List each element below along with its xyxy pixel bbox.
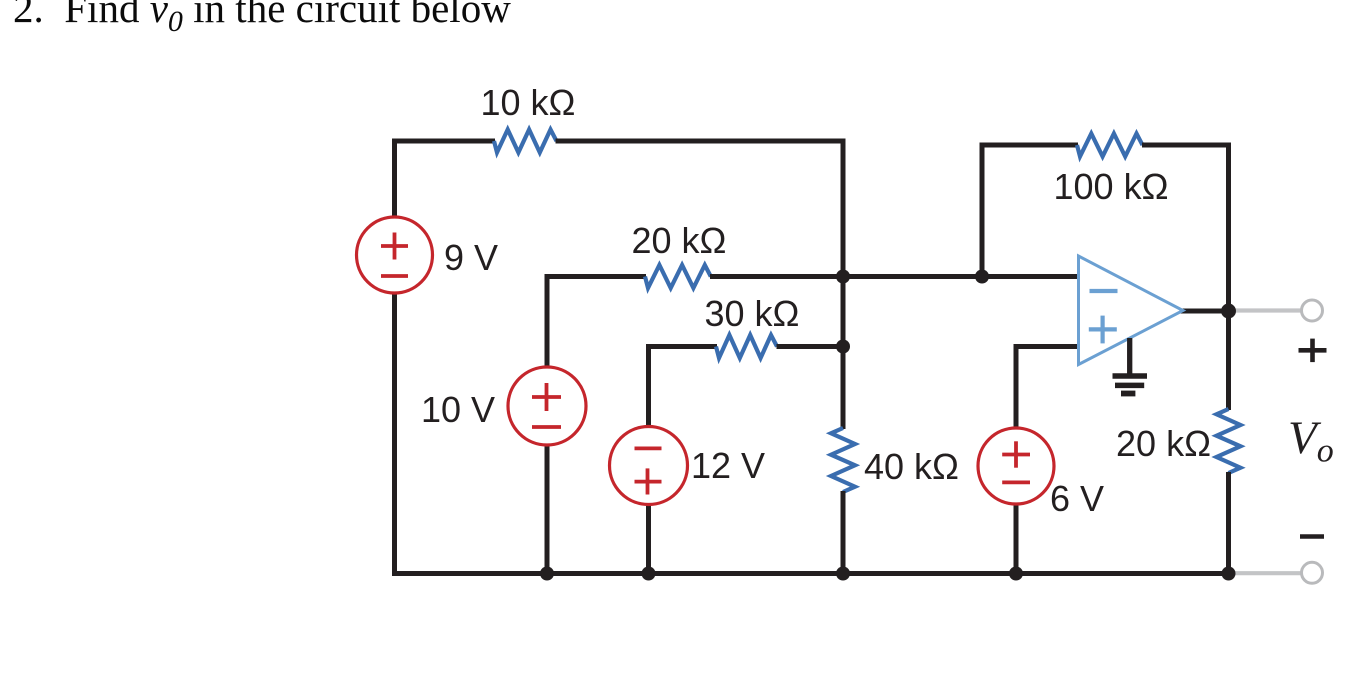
svg-text:6 V: 6 V <box>1050 478 1104 519</box>
label 12 V <box>691 445 765 486</box>
svg-text:40 kΩ: 40 kΩ <box>864 446 959 487</box>
source 10V circle <box>508 367 586 445</box>
resistor 20 kOhm zigzag <box>645 265 711 288</box>
label 30 kOhm <box>705 293 800 334</box>
ground bars <box>1113 376 1148 394</box>
svg-text:30 kΩ: 30 kΩ <box>705 293 800 334</box>
wire: 30k row y=346.5 (right segment) <box>777 344 844 349</box>
wire: op-amp plus input horizontal <box>1016 344 1079 349</box>
label 40 kOhm <box>864 446 959 487</box>
label 9 V <box>444 237 498 278</box>
label Vo <box>1288 412 1334 470</box>
svg-text:10 kΩ: 10 kΩ <box>481 82 576 123</box>
node: junction dot bottom x=843 <box>836 567 850 581</box>
resistor 20 kOhm (vertical) zigzag <box>1217 409 1241 473</box>
label 20 kOhm <box>632 220 727 261</box>
node: junction dot minus row x=843 <box>836 270 850 284</box>
wire: bottom rail horizontal <box>392 571 1231 576</box>
resistor 10 kOhm zigzag <box>494 130 557 153</box>
node: junction dot 30k row x=843 <box>836 340 850 354</box>
resistor 100 kOhm zigzag <box>1077 134 1143 157</box>
wire: gray output lead bottom <box>1231 571 1302 575</box>
wire: op-amp output <box>1180 309 1231 314</box>
label minus terminal <box>1300 534 1324 539</box>
wire: vertical x=1016 (6V branch) <box>1014 344 1019 574</box>
resistor 30 kOhm zigzag <box>716 335 777 358</box>
wire: feedback top horizontal (right segment) <box>1142 143 1231 148</box>
wire: minus-input row y=276.5 (left segment) <box>547 274 646 279</box>
svg-text:100 kΩ: 100 kΩ <box>1054 166 1169 207</box>
wire: minus-input row y=276.5 (right segment to op-amp) <box>710 274 1079 279</box>
wire: vertical x=843 lower <box>841 491 846 574</box>
wire: top left horizontal (left segment) <box>395 139 496 144</box>
label 6 V <box>1050 478 1104 519</box>
wire: left rail vertical <box>392 139 397 577</box>
wire: top horizontal (right segment) <box>556 139 846 144</box>
terminal: output top open circle <box>1302 300 1323 321</box>
svg-text:9 V: 9 V <box>444 237 498 278</box>
wire: right vertical x=1228.5 lower <box>1226 472 1231 574</box>
source 9V circle <box>357 217 433 293</box>
wire: vertical x=547 (10V branch) <box>545 274 550 574</box>
wire: feedback vertical x=982 <box>980 143 985 277</box>
wire: 30k row y=346.5 (left segment) <box>649 344 718 349</box>
resistor 40 kOhm zigzag (vertical) <box>831 428 855 492</box>
node: junction dot minus row x=982 <box>975 270 989 284</box>
wire: vertical x=648.5 (12V branch) <box>646 344 651 574</box>
wire: gray output lead top <box>1231 308 1302 312</box>
wire: feedback top horizontal (left segment) <box>980 143 1079 148</box>
wire: vertical x=843 upper <box>841 141 846 429</box>
label plus terminal <box>1299 339 1327 363</box>
node: junction dot bottom x=648.5 <box>642 567 656 581</box>
svg-text:20 kΩ: 20 kΩ <box>632 220 727 261</box>
source 12V circle (minus on top) <box>610 427 688 505</box>
op-amp U1 triangle <box>1079 256 1184 365</box>
svg-text:20 kΩ: 20 kΩ <box>1116 423 1211 464</box>
node: junction dot output <box>1221 304 1236 319</box>
label 10 V <box>421 389 495 430</box>
label 20 kOhm (vertical resistor) <box>1116 423 1211 464</box>
source 6V circle <box>978 428 1054 504</box>
label 10 kOhm <box>481 82 576 123</box>
wire: right vertical x=1228.5 upper <box>1226 143 1231 411</box>
svg-text:12 V: 12 V <box>691 445 765 486</box>
title text <box>13 0 511 32</box>
op-amp plus input symbol <box>1089 316 1117 344</box>
op-amp minus input symbol <box>1090 289 1118 293</box>
terminal: output bottom open circle <box>1302 562 1323 583</box>
node: junction dot bottom x=1016 <box>1009 567 1023 581</box>
label 100 kOhm <box>1054 166 1169 207</box>
node: junction dot bottom x=1228.5 <box>1222 567 1236 581</box>
ground stem <box>1127 338 1132 374</box>
svg-text:Vo: Vo <box>1288 412 1334 470</box>
svg-text:10 V: 10 V <box>421 389 495 430</box>
node: junction dot bottom x=547 <box>540 567 554 581</box>
